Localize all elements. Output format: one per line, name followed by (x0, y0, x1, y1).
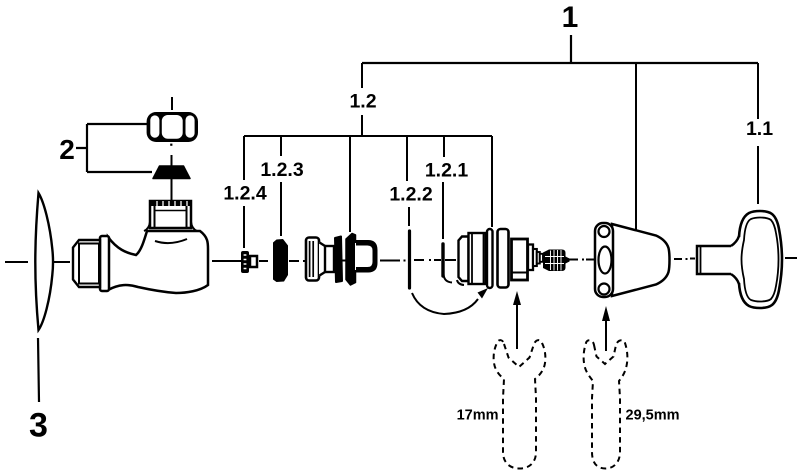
svg-text:1.2.2: 1.2.2 (389, 184, 433, 206)
piston cap (306, 238, 319, 281)
small o-ring near cartridge (443, 244, 452, 283)
svg-text:1: 1 (562, 1, 579, 34)
bracket for 2 (76, 124, 152, 172)
seal disc 1.2.3 (273, 239, 288, 282)
leader line 1.2.1 (443, 136, 444, 239)
outlet collar (150, 201, 191, 228)
wrench 29,5mm (dashed) (584, 340, 628, 468)
svg-text:1.2.4: 1.2.4 (223, 183, 267, 205)
cone seal (153, 155, 190, 200)
handle 1.1 (697, 211, 782, 308)
leader line 1.2.3 (280, 136, 282, 236)
step bands (528, 245, 533, 271)
tall washer (346, 234, 356, 286)
label 3 (29, 338, 48, 445)
svg-text:29,5mm: 29,5mm (626, 408, 680, 424)
leader line 1.2 (361, 63, 363, 136)
junction mask (728, 247, 741, 273)
stem tip (566, 257, 570, 264)
leader line from 1 (362, 35, 758, 63)
leader line 1.1 (757, 63, 759, 204)
flange plate 1 (487, 229, 493, 288)
piston assembly (306, 234, 378, 286)
leader line to cap (635, 63, 637, 230)
curved arrow to cartridge groove (412, 288, 488, 314)
left body (469, 233, 486, 284)
lens (739, 211, 782, 308)
o-ring 1.2.2 edge view (408, 231, 411, 288)
left collar (459, 237, 469, 282)
leader line to piston (349, 136, 351, 232)
arrow up to cartridge (17mm) (513, 291, 521, 349)
main body (108, 231, 208, 293)
leader line 1.2.4 (243, 136, 245, 248)
bell cup (355, 243, 374, 270)
taper (319, 243, 325, 276)
washer (335, 237, 342, 283)
svg-text:1.2.1: 1.2.1 (425, 160, 469, 182)
hex nut (147, 97, 198, 146)
svg-text:17mm: 17mm (457, 408, 499, 424)
threaded spigot (73, 240, 100, 287)
arrow up to cap (29,5mm) (602, 306, 610, 351)
cartridge 1.2.1 (457, 229, 570, 288)
mid cylinder (325, 246, 334, 272)
hex body (512, 239, 528, 280)
svg-text:1.1: 1.1 (746, 118, 773, 140)
svg-text:3: 3 (29, 407, 48, 445)
valve body (73, 201, 208, 293)
svg-text:1.2.3: 1.2.3 (260, 159, 304, 181)
svg-text:1.2: 1.2 (349, 91, 376, 113)
leader line to cartridge (491, 136, 493, 227)
cap (595, 223, 670, 297)
wrench 17mm (dashed) (494, 340, 546, 468)
wall rosette (35, 193, 53, 330)
body shoulder line (155, 239, 187, 243)
sub-tree bar 1.2 (244, 135, 492, 137)
svg-text:2: 2 (59, 134, 75, 165)
screw 1.2.4 (241, 251, 257, 273)
cartridge foot curve (457, 280, 464, 285)
ribs (537, 252, 540, 264)
flange (100, 236, 109, 291)
shank (697, 246, 731, 274)
leader line 1.2.2 (407, 136, 409, 226)
center axis line (5, 258, 797, 262)
flange plate 2 (498, 229, 509, 288)
spline (543, 250, 566, 272)
